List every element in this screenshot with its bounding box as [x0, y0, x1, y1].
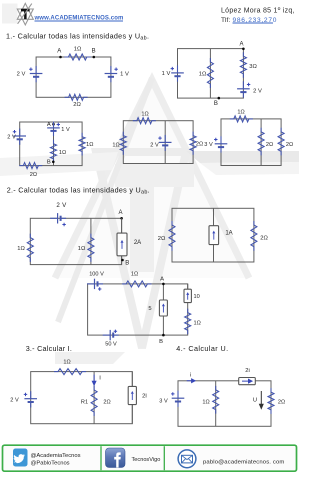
svg-text:2Ω: 2Ω [30, 172, 37, 178]
circuit 2 loop [178, 49, 244, 99]
svg-text:B: B [214, 101, 218, 107]
svg-text:3 V: 3 V [159, 399, 168, 405]
svg-text:2Ω: 2Ω [73, 102, 81, 108]
circuit 1 loop [36, 57, 111, 97]
middle branch wire C9 [93, 372, 95, 424]
svg-text:@AcademiaTecnos: @AcademiaTecnos [31, 453, 81, 459]
node B C1 [93, 56, 96, 59]
node A C6 [120, 217, 123, 220]
svg-text:1.- Calcular todas las intensi: 1.- Calcular todas las intensidades y Ua… [6, 31, 149, 41]
svg-text:1Ω: 1Ω [202, 400, 209, 406]
svg-text:B: B [125, 261, 129, 267]
resistor 1ohm middle C6 [88, 234, 94, 262]
resistor 1ohm top C1 [64, 54, 90, 60]
svg-text:1 V: 1 V [61, 127, 70, 133]
svg-text:2 V: 2 V [150, 143, 159, 149]
resistor 2ohm right C10 [268, 388, 274, 414]
battery 3V C5 [220, 136, 222, 144]
resistor 1ohm top C9 [54, 369, 86, 375]
circuit 9 loop [31, 372, 133, 424]
svg-text:2Ω: 2Ω [196, 142, 203, 148]
node B C6 [121, 259, 124, 262]
svg-text:1Ω: 1Ω [78, 246, 86, 252]
resistor 1ohm top C4 [133, 118, 156, 124]
svg-text:3 V: 3 V [204, 142, 213, 148]
resistor 1ohm middle C2 [207, 58, 213, 88]
battery 2V C4 [164, 135, 166, 143]
middle branch wire C4 [164, 121, 166, 164]
current arrow i C10 [187, 379, 195, 383]
svg-text:2 V: 2 V [253, 89, 262, 95]
resistor 1ohm right C8 [185, 309, 191, 335]
svg-text:i: i [190, 373, 191, 379]
svg-text:2Ω: 2Ω [286, 142, 293, 148]
resistor 1ohm left C4 [120, 132, 126, 155]
svg-text:Tlf:: Tlf: [221, 17, 230, 24]
node B C2 [218, 97, 221, 100]
current source 5 C8 [159, 300, 167, 316]
node B C8 [162, 334, 165, 337]
svg-text:1Ω: 1Ω [141, 112, 148, 118]
svg-text:1Ω: 1Ω [86, 142, 93, 148]
email icon [178, 450, 196, 468]
svg-text:1 V: 1 V [120, 72, 129, 78]
battery 2V top C6 [50, 217, 58, 219]
svg-text:10: 10 [194, 294, 200, 300]
circuit 4 loop [123, 121, 193, 164]
middle branch wire C5 [260, 119, 262, 166]
svg-text:1A: 1A [225, 231, 232, 237]
svg-text:B: B [92, 48, 96, 54]
circuit 6 loop [30, 218, 121, 264]
svg-text:A: A [118, 210, 122, 216]
resistor 3ohm C2 [240, 52, 246, 78]
resistor 2ohm right C5 [278, 128, 284, 156]
current source 2I C9 [131, 372, 133, 387]
middle branch wire C6 [90, 218, 92, 264]
svg-text:2 V: 2 V [17, 72, 26, 78]
svg-text:pablo@academiatecnos. com: pablo@academiatecnos. com [203, 459, 284, 465]
svg-text:A: A [239, 42, 243, 48]
svg-text:1Ω: 1Ω [112, 143, 119, 149]
svg-text:1Ω: 1Ω [59, 150, 66, 156]
resistor 1ohm middle C10 [213, 386, 219, 414]
footer bar [3, 445, 297, 471]
node A C8 [162, 283, 165, 286]
svg-text:4.- Calcular U.: 4.- Calcular U. [176, 344, 228, 353]
middle branch wire C7 [213, 208, 215, 225]
battery 2V C1 [35, 66, 37, 74]
battery 1V C1 [110, 66, 112, 74]
svg-text:B: B [47, 160, 51, 166]
resistor 1ohm middle C3 [51, 140, 57, 163]
resistor 2ohm right C7 [251, 221, 257, 251]
svg-text:2 V: 2 V [56, 202, 67, 209]
resistor 2ohm middle C5 [258, 128, 264, 156]
twitter icon [13, 449, 28, 467]
svg-text:50 V: 50 V [105, 342, 117, 348]
svg-text:2 V: 2 V [7, 135, 16, 141]
node A C2 [242, 48, 245, 51]
battery 1V C2 [177, 65, 179, 73]
svg-text:U: U [253, 397, 257, 403]
resistor 2ohm bottom C1 [65, 94, 88, 100]
svg-text:2 V: 2 V [10, 398, 19, 404]
node A C3 [52, 123, 55, 126]
header gray box [2, 4, 18, 24]
svg-text:100 V: 100 V [89, 272, 104, 278]
svg-text:2Ω: 2Ω [278, 400, 285, 406]
middle branch wire C3 [53, 122, 55, 166]
resistor 2ohm right C4 [190, 132, 196, 155]
watermark academy logo [0, 78, 299, 364]
resistor 1ohm left C6 [27, 234, 33, 262]
svg-text:3Ω: 3Ω [249, 64, 257, 70]
svg-text:1Ω: 1Ω [74, 47, 82, 53]
svg-text:1Ω: 1Ω [194, 321, 201, 327]
middle branch wire C2 [209, 49, 211, 99]
resistor 2ohm bottom C3 [19, 163, 42, 169]
node A C1 [59, 56, 62, 59]
battery 3V C10 [177, 391, 179, 399]
current source 1A C7 [209, 226, 219, 245]
current source 10 C8 [187, 284, 189, 289]
svg-text:A: A [160, 276, 164, 282]
battery 50V bottom C8 [103, 334, 111, 336]
svg-text:1Ω: 1Ω [131, 272, 138, 278]
svg-text:2Ω: 2Ω [103, 400, 110, 406]
resistor R1 2ohm middle C9 [91, 386, 97, 416]
svg-text:2A: 2A [134, 240, 141, 246]
svg-text:2.- Calcular todas las intensi: 2.- Calcular todas las intensidades y Ua… [7, 186, 150, 196]
current arrow I C9 [92, 375, 96, 386]
svg-text:2I: 2I [142, 393, 147, 399]
circuit 5 loop [221, 119, 281, 166]
svg-text:5: 5 [148, 306, 151, 312]
resistor 2ohm left C7 [169, 221, 175, 251]
circuit 7 loop [172, 208, 254, 262]
svg-text:R1: R1 [81, 400, 88, 406]
svg-text:3.- Calcular I.: 3.- Calcular I. [26, 344, 72, 353]
resistor 1ohm top C5 [230, 116, 253, 122]
current source 2A C6 [121, 218, 123, 233]
svg-text:A: A [47, 122, 51, 128]
svg-text:1 V: 1 V [162, 71, 171, 77]
battery 2V C2 [242, 81, 244, 89]
svg-text:1Ω: 1Ω [17, 246, 25, 252]
svg-text:TecnosVigo: TecnosVigo [132, 457, 161, 463]
battery 1V middle C3 [53, 122, 55, 128]
resistor 1ohm right C3 [79, 133, 85, 156]
svg-text:1Ω: 1Ω [63, 360, 70, 366]
svg-text:B: B [159, 339, 163, 345]
resistor 1ohm top C8 [122, 281, 151, 287]
middle branch wire C10 [215, 381, 217, 427]
footer divider 2 [163, 446, 165, 470]
svg-text:@PabloTecnos: @PabloTecnos [31, 461, 70, 467]
battery 100V top C8 [87, 283, 95, 285]
middle branch wire C8 [162, 284, 164, 300]
svg-text:López Mora 85 1º izq,: López Mora 85 1º izq, [221, 8, 295, 15]
battery 2V C3 [19, 129, 21, 137]
svg-text:2i: 2i [245, 368, 250, 374]
svg-text:1Ω: 1Ω [199, 72, 207, 78]
svg-text:2Ω: 2Ω [266, 142, 273, 148]
logo star [17, 3, 33, 25]
current source 2i C10 [239, 378, 256, 385]
circuit 3 loop [20, 122, 82, 166]
svg-text:1Ω: 1Ω [237, 110, 244, 116]
node B C3 [52, 161, 55, 164]
circuit 8 loop [88, 284, 188, 335]
footer divider 1 [100, 446, 102, 470]
circuit 10 loop [178, 381, 271, 427]
svg-text:A: A [57, 48, 61, 54]
battery 2V C9 [30, 391, 32, 399]
svg-text:2Ω: 2Ω [260, 236, 268, 242]
svg-text:2Ω: 2Ω [158, 236, 166, 242]
